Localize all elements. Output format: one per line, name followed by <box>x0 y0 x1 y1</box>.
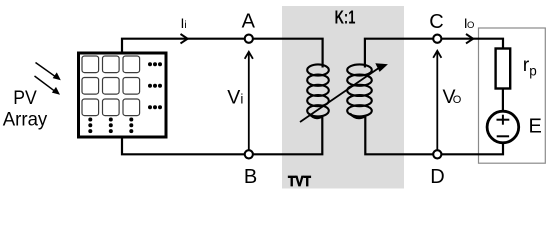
wire bottom-left from PV to left winding <box>122 115 322 154</box>
light ray arrow 2 <box>35 76 61 95</box>
wire resistor to source <box>502 88 504 112</box>
source plus sign <box>497 115 510 125</box>
svg-text:A: A <box>242 11 256 33</box>
svg-text:PV: PV <box>13 87 37 109</box>
wire top-right from right winding to rp <box>365 39 503 68</box>
wire top-left from PV to left winding <box>122 39 323 68</box>
PV row continuation dots <box>148 62 162 109</box>
svg-text:Array: Array <box>3 109 48 131</box>
svg-text:E: E <box>529 115 542 137</box>
variable transformer arrow <box>300 63 388 122</box>
source minus sign <box>497 135 509 137</box>
PV cell row 1 <box>82 56 140 73</box>
PV cell row 2 <box>82 78 140 95</box>
load box outline <box>479 28 546 163</box>
TVT shaded block <box>282 6 404 189</box>
node B <box>245 150 253 158</box>
wire bottom-right from right winding to E <box>365 115 503 154</box>
svg-text:D: D <box>430 166 444 188</box>
svg-text:TVT: TVT <box>288 174 311 190</box>
resistor rp <box>496 49 511 89</box>
PV array panel box <box>79 53 167 137</box>
svg-text:B: B <box>244 166 257 188</box>
voltage arrow Vi <box>245 52 253 150</box>
transformer left winding L1 <box>307 64 329 118</box>
voltage arrow Vo <box>433 51 441 150</box>
node D <box>433 150 441 158</box>
PV column continuation dots <box>88 118 133 134</box>
PV cell row 3 <box>82 99 140 116</box>
node A <box>245 35 253 43</box>
light ray arrow 1 <box>36 63 61 81</box>
svg-text:K:1: K:1 <box>335 7 356 28</box>
svg-text:C: C <box>429 11 443 33</box>
node C <box>433 35 441 43</box>
current arrow Ii <box>181 34 188 43</box>
voltage source E <box>487 111 519 143</box>
current arrow Io <box>466 34 473 43</box>
transformer right winding L2 <box>347 64 372 118</box>
